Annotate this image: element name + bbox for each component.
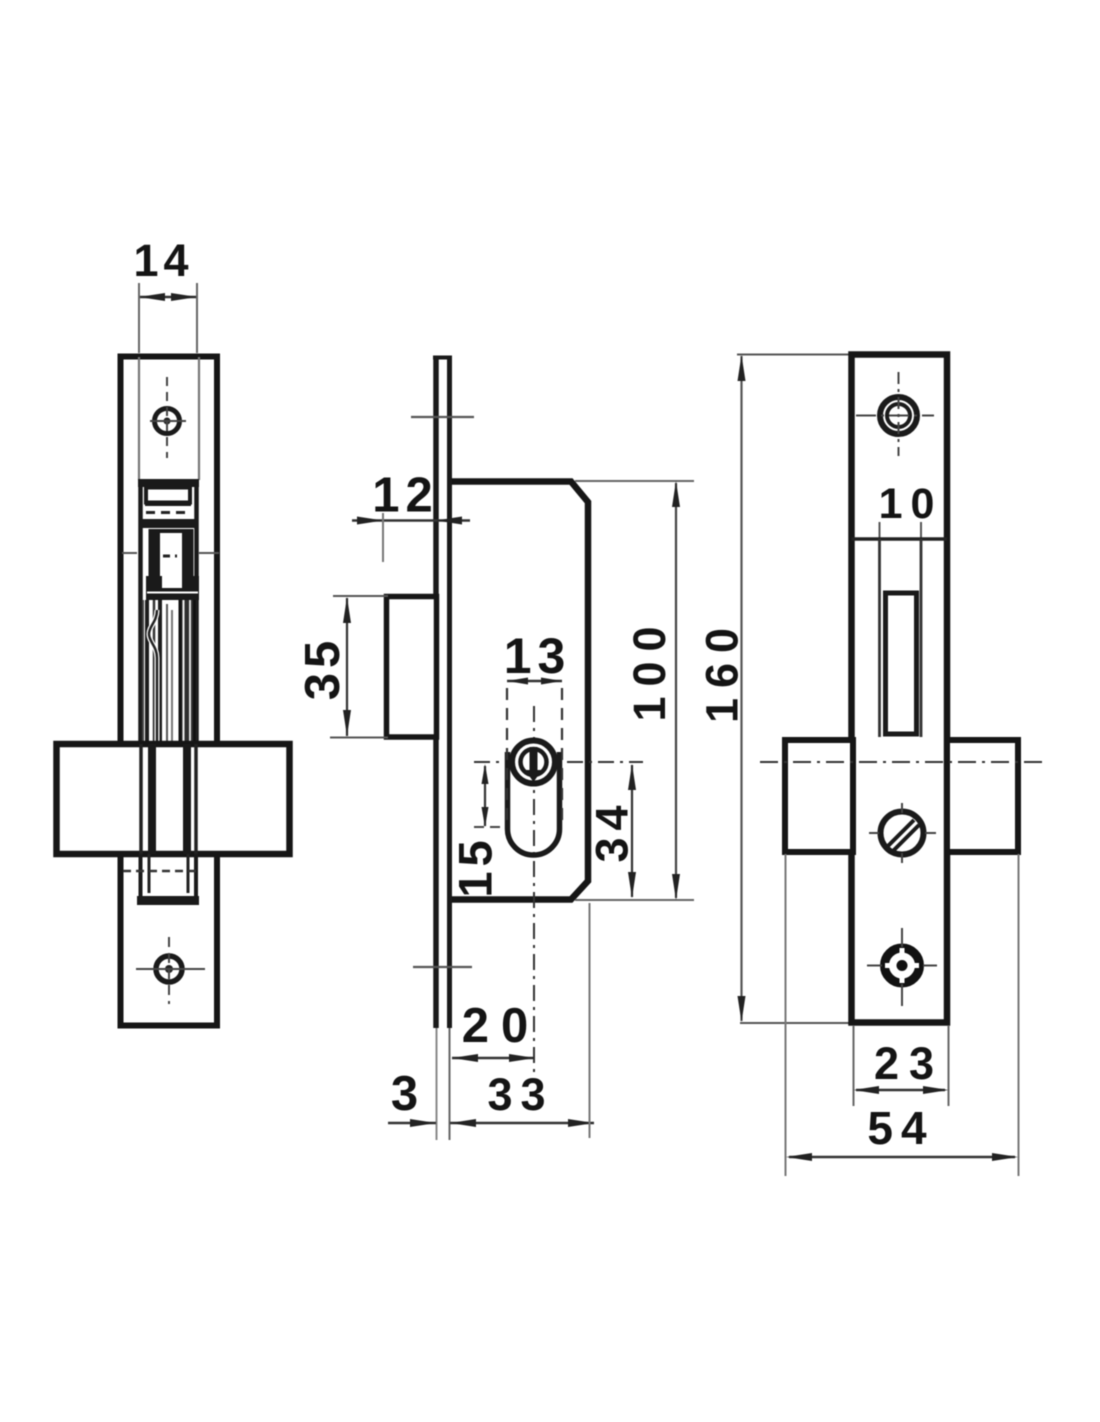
tail channel below case — [139, 854, 143, 904]
keyhole vertical centreline — [533, 706, 535, 1072]
case box right — [947, 740, 1018, 852]
horizontal centreline — [760, 761, 1046, 763]
spring zone right bundle — [179, 600, 197, 741]
faceplate back rect — [852, 355, 948, 1023]
strip extension lines below — [436, 1028, 438, 1140]
svg-text:160: 160 — [697, 618, 748, 723]
follower centre tick marks — [122, 552, 137, 554]
spring S-curve — [149, 610, 157, 741]
top screw hole — [155, 409, 180, 434]
body bottom extension line — [575, 899, 694, 901]
svg-text:35: 35 — [296, 636, 350, 701]
lock body outline — [452, 482, 588, 900]
dim 15 — [484, 766, 486, 826]
extension lines 14 — [138, 283, 140, 353]
cylinder circle — [512, 741, 555, 784]
svg-text:13: 13 — [504, 628, 572, 684]
extension lines 35 — [333, 595, 388, 597]
svg-text:100: 100 — [624, 616, 675, 721]
svg-text:14: 14 — [133, 235, 193, 286]
dim 35 — [346, 598, 348, 736]
plate cross line — [852, 537, 948, 541]
faceplate front rect — [121, 357, 218, 1026]
latch bolt side view — [387, 597, 437, 738]
svg-text:15: 15 — [449, 835, 502, 897]
svg-text:33: 33 — [487, 1069, 553, 1120]
keyway slot — [530, 747, 538, 772]
latch slot lines 10 — [878, 539, 881, 737]
extension lines 54 — [785, 854, 787, 1176]
follower base — [146, 576, 199, 600]
svg-text:54: 54 — [867, 1102, 934, 1154]
faceplate inner edge lines — [138, 357, 140, 480]
dim 34 — [631, 765, 633, 897]
svg-text:10: 10 — [879, 480, 943, 528]
middle screw — [881, 812, 924, 855]
bottom screw hole — [156, 956, 182, 982]
dim line 12 — [352, 519, 470, 521]
strip tick bottom — [413, 966, 472, 968]
extension lines 23 — [853, 1026, 855, 1106]
keyhole horizontal centreline — [474, 761, 643, 763]
dim 160 — [740, 356, 742, 1021]
follower block — [151, 531, 192, 589]
strip tick top — [411, 416, 474, 418]
dim line 54 — [789, 1156, 1015, 1158]
svg-text:20: 20 — [462, 999, 541, 1053]
case box left — [785, 740, 853, 852]
body top extension line — [575, 480, 694, 482]
latch channel edges — [138, 480, 143, 743]
tail end cap — [137, 896, 199, 905]
svg-text:3: 3 — [391, 1067, 418, 1121]
faceplate strip edge-on — [433, 357, 439, 1028]
top extension line 160 — [737, 354, 851, 356]
channel inside case — [139, 744, 143, 854]
latch top bar — [138, 479, 199, 487]
svg-text:34: 34 — [587, 798, 638, 862]
bottom screw — [885, 948, 920, 983]
spring zone center lines — [166, 604, 168, 741]
dim line 3 and 33 — [388, 1122, 436, 1124]
body right extension line — [589, 903, 591, 1138]
cylinder obround — [508, 752, 560, 855]
latch head box — [146, 488, 190, 503]
bottom extension line 160 — [740, 1022, 854, 1024]
lock case cross box — [57, 744, 290, 854]
latch window rect — [886, 593, 917, 734]
dashed extension lines 13 — [506, 688, 508, 828]
spring zone left bundle — [145, 600, 149, 741]
dashed line in tail — [123, 870, 196, 873]
dim line 14 — [139, 296, 197, 298]
top screw — [880, 397, 917, 434]
dashed line in latch — [146, 511, 191, 514]
extension line 12 — [382, 513, 384, 562]
svg-text:23: 23 — [874, 1038, 944, 1089]
latch bar 2 — [141, 519, 196, 528]
dim 100 — [675, 483, 677, 898]
dim line 23 — [856, 1089, 945, 1091]
dim 10 extension stubs — [879, 522, 881, 539]
